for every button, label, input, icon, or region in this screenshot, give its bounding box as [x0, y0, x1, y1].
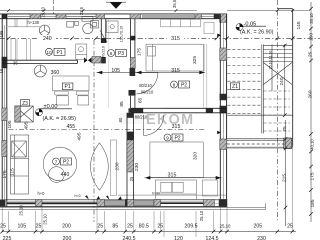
svg-text:105: 105 [7, 120, 13, 128]
svg-text:230: 230 [257, 236, 266, 240]
dim arrows at bottom wall [85, 195, 89, 199]
svg-text:440: 440 [61, 172, 70, 178]
svg-text:240: 240 [43, 36, 52, 42]
svg-text:360: 360 [51, 70, 60, 76]
staircase lower dashed steps right [263, 91, 290, 131]
watermark [120, 112, 194, 128]
room label 9 P2 [164, 134, 183, 142]
svg-text:8: 8 [173, 83, 176, 88]
svg-text:h+130: h+130 [28, 20, 40, 25]
staircase upper flight solid steps [263, 45, 292, 61]
bottom dim line row1 [2, 231, 296, 233]
svg-text:P2: P2 [181, 83, 187, 89]
rotated dims interior [0, 6, 204, 224]
svg-text:P2: P2 [174, 136, 180, 142]
svg-text:25,10: 25,10 [220, 223, 232, 228]
svg-text:(A.K. = 26.95): (A.K. = 26.95) [43, 116, 77, 122]
door D3 double swing lens [91, 143, 109, 190]
svg-text:105: 105 [111, 68, 120, 74]
level marker 0.00 [36, 109, 73, 116]
svg-text:P1: P1 [56, 50, 62, 56]
room label 10 P1 [46, 48, 66, 56]
svg-text:120: 120 [174, 236, 183, 240]
svg-text:P2: P2 [63, 160, 69, 166]
wall stub below door1 [129, 90, 136, 96]
dim line y=129 [9, 128, 206, 130]
wardrobe bedroom2 [202, 180, 217, 196]
couch bedroom2 [155, 180, 196, 200]
fan symbol living [34, 65, 46, 77]
wire: vertical dashed axis x=277 [276, 0, 278, 222]
kitchen sink unit [76, 44, 87, 59]
bottom wall piers [0, 199, 227, 206]
label Z1 [230, 83, 239, 90]
svg-text:EKOM: EKOM [146, 112, 194, 128]
svg-text:80/210: 80/210 [139, 83, 152, 88]
svg-text:75: 75 [282, 126, 288, 132]
radiator pier [92, 57, 101, 64]
svg-text:315: 315 [171, 68, 180, 74]
svg-text:10: 10 [46, 50, 52, 55]
dining table [53, 76, 90, 105]
svg-text:h+0: h+0 [38, 191, 46, 196]
wall tick arrows right [217, 34, 221, 38]
dim line y=72.5 [97, 72, 206, 74]
label Z3 [20, 100, 29, 107]
dim 240 [39, 35, 57, 41]
right dim chain line [310, 2, 312, 222]
svg-text:-0.05: -0.05 [244, 21, 257, 27]
bottom dim texts row2 [3, 236, 266, 240]
left wall [2, 14, 7, 207]
svg-text:Z3: Z3 [22, 101, 28, 107]
svg-text:80/210: 80/210 [135, 115, 148, 120]
svg-text:70/210: 70/210 [102, 46, 106, 58]
shaft Z3 [15, 106, 33, 122]
svg-text:P3: P3 [118, 51, 124, 57]
svg-text:195: 195 [0, 30, 4, 38]
room label 8 P2 [171, 81, 190, 89]
svg-text:h=90: h=90 [152, 192, 160, 196]
svg-text:315: 315 [172, 124, 181, 130]
svg-text:35,10: 35,10 [309, 13, 314, 24]
balcony beam [227, 139, 293, 147]
svg-text:145: 145 [296, 21, 302, 29]
svg-text:65: 65 [138, 98, 144, 104]
svg-text:9: 9 [166, 136, 169, 141]
round table [43, 147, 77, 182]
wire: vertical dashed axis x=94 [93, 40, 95, 222]
toilet [82, 17, 99, 34]
svg-text:315: 315 [171, 36, 180, 42]
svg-text:175: 175 [310, 172, 316, 180]
svg-text:6: 6 [110, 51, 113, 56]
staircase stringers [262, 45, 264, 134]
svg-text:35,5: 35,5 [172, 0, 177, 8]
bed bedroom2 [150, 142, 203, 178]
svg-text:225: 225 [3, 236, 12, 240]
svg-text:40,10: 40,10 [310, 139, 315, 150]
svg-text:P1: P1 [65, 84, 71, 90]
svg-text:150: 150 [309, 33, 315, 41]
stair dim line 240 [284, 44, 286, 115]
top wall hatch piers [2, 14, 227, 22]
beam end block [284, 138, 292, 149]
svg-text:230: 230 [115, 162, 121, 170]
top wall [0, 14, 227, 19]
kitchen lower cabinets [11, 39, 30, 60]
room label 6 P3 [108, 50, 127, 58]
parapet line [118, 194, 227, 196]
svg-text:22,5: 22,5 [79, 6, 84, 15]
bottom dim extension lines [2, 147, 292, 237]
svg-text:Z1: Z1 [232, 84, 238, 90]
svg-text:175: 175 [2, 170, 8, 178]
room label P1 [62, 83, 73, 90]
svg-text:85: 85 [119, 101, 125, 107]
svg-text:25,10: 25,10 [41, 6, 46, 17]
cupboard at bedroom2 wall [111, 140, 117, 196]
rotated dims right side [269, 13, 317, 208]
svg-text:25: 25 [308, 52, 314, 58]
svg-text:25,10: 25,10 [19, 205, 24, 216]
svg-text:±0.00: ±0.00 [44, 104, 58, 110]
svg-text:25,10: 25,10 [199, 210, 204, 221]
svg-text:240: 240 [279, 77, 285, 85]
dim line y=177.5 [145, 177, 222, 179]
interior wall living/bedroom2 x=127-133.5 [127, 113, 134, 200]
svg-text:240.5: 240.5 [123, 236, 136, 240]
wardrobe bedroom1 [161, 19, 215, 33]
terrace offset lines below bottom wall [0, 203, 266, 209]
svg-text:25: 25 [127, 223, 133, 229]
svg-text:25: 25 [97, 223, 103, 229]
north triangle marker [106, 2, 126, 9]
svg-text:200: 200 [62, 223, 71, 229]
wire: vertical dashed axis x=53 top [53, 0, 55, 14]
svg-text:205: 205 [253, 223, 262, 229]
bottom wall [0, 200, 227, 207]
svg-text:25: 25 [36, 223, 42, 229]
svg-text:80.5: 80.5 [139, 223, 149, 229]
svg-text:25,10: 25,10 [43, 214, 48, 225]
svg-text:200: 200 [63, 236, 72, 240]
svg-text:35,10,11,30: 35,10,11,30 [269, 51, 273, 70]
svg-text:15: 15 [0, 68, 4, 73]
svg-text:215: 215 [282, 174, 288, 182]
svg-text:80: 80 [118, 117, 123, 122]
interior wall wc vertical x=101-106 [101, 19, 106, 43]
interior wall kitchen/living y=60 [2, 60, 77, 63]
svg-text:455: 455 [66, 124, 75, 130]
top dim slashes on y=38.3 [7, 37, 295, 41]
svg-text:175: 175 [137, 48, 143, 56]
room label 7 P2 [53, 158, 72, 166]
interior wall hall/bedroom1 x=131-135 [131, 19, 135, 68]
svg-text:320: 320 [193, 152, 199, 160]
door D2 80/210 [143, 115, 163, 135]
fan symbol kitchen [39, 25, 50, 36]
shower [107, 21, 119, 33]
svg-text:495: 495 [24, 121, 30, 129]
svg-text:115,70,10: 115,70,10 [119, 26, 123, 43]
svg-text:105: 105 [17, 223, 26, 229]
svg-text:115: 115 [10, 168, 16, 176]
bottom wall window glazing lines [7, 202, 203, 204]
svg-text:7: 7 [55, 160, 58, 165]
svg-text:25: 25 [157, 223, 163, 229]
interior wall bed1/bed2 y=108-113 [131, 108, 227, 113]
svg-text:315: 315 [168, 173, 177, 179]
right wall [220, 14, 226, 207]
bed bedroom1 [146, 44, 204, 71]
svg-text:(A.K. = 26.90): (A.K. = 26.90) [240, 30, 274, 36]
svg-text:124.5: 124.5 [206, 236, 219, 240]
svg-text:325: 325 [192, 56, 198, 64]
svg-text:209.5: 209.5 [185, 223, 198, 229]
svg-text:230: 230 [134, 163, 140, 171]
top wall window midlines [8, 15, 214, 17]
door wc diagonal leaf [100, 31, 106, 42]
boiler boxes [67, 21, 78, 27]
staircase landing edge [227, 114, 292, 116]
top dim line [0, 10, 309, 12]
svg-text:260: 260 [308, 90, 314, 98]
mid right dim line 215 [285, 120, 287, 226]
partition lines bedroom1 [203, 44, 207, 108]
kitchen cabinets top [8, 19, 40, 27]
terrace outline [277, 9, 292, 147]
svg-text:25: 25 [0, 223, 6, 229]
level marker -0.05 [236, 24, 266, 31]
kitchen counter left [11, 135, 29, 194]
svg-text:495: 495 [77, 132, 83, 140]
wire: long dashed section line y=38 [0, 37, 320, 39]
svg-text:85: 85 [112, 223, 118, 229]
staircase void cross [263, 45, 292, 92]
svg-text:25: 25 [287, 223, 293, 229]
bottom dim texts row1 [0, 223, 293, 229]
dim 315 top [167, 35, 185, 41]
svg-text:h=0: h=0 [75, 194, 81, 198]
door arrows at kitchen opening [84, 58, 88, 63]
svg-text:90/210: 90/210 [141, 90, 154, 95]
svg-text:25: 25 [129, 176, 134, 181]
staircase lower flight dashed steps [227, 49, 261, 113]
grid line x=108 [107, 19, 109, 108]
svg-text:35: 35 [13, 61, 18, 66]
door D1 80/210 [137, 72, 159, 94]
